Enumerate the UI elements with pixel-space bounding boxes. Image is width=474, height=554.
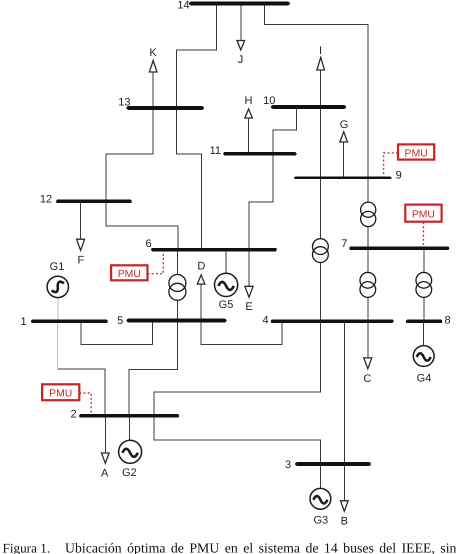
wire load K stem — [152, 72, 154, 108]
wire load I stem — [320, 70, 322, 107]
svg-text:G1: G1 — [50, 261, 65, 273]
bus 9 — [295, 177, 391, 179]
load arrow J head — [237, 41, 245, 50]
wire load C stem — [367, 321, 369, 358]
bus 13 — [128, 106, 202, 110]
svg-text:9: 9 — [396, 170, 402, 182]
svg-text:14: 14 — [177, 0, 189, 12]
svg-text:G4: G4 — [417, 372, 432, 384]
svg-text:K: K — [149, 47, 157, 59]
generator G1 — [47, 276, 68, 297]
wire branch 2-5 — [129, 321, 177, 416]
transformer T9-4 — [313, 239, 329, 263]
wire branch 1-2 gray — [57, 321, 59, 369]
svg-text:A: A — [101, 468, 109, 480]
load arrow H head — [245, 109, 253, 118]
transformer T7-8 — [416, 272, 432, 297]
svg-text:8: 8 — [444, 315, 450, 327]
svg-text:13: 13 — [118, 97, 130, 109]
svg-text:11: 11 — [210, 145, 221, 157]
wire branch 6-5 segment D and branch 5-4 — [201, 284, 282, 345]
svg-text:7: 7 — [341, 238, 347, 250]
svg-text:1: 1 — [21, 316, 27, 328]
transformer T9-7 — [361, 202, 376, 227]
load arrow E head — [245, 286, 253, 297]
bus 6 — [153, 248, 275, 252]
bus 10 — [273, 105, 344, 109]
svg-text:5: 5 — [117, 315, 123, 327]
bus 7 — [351, 247, 448, 251]
svg-text:4: 4 — [262, 314, 268, 326]
wire branch 1-5 — [81, 321, 152, 345]
svg-text:J: J — [238, 54, 244, 66]
load arrow B head — [341, 501, 349, 511]
svg-text:G: G — [340, 119, 349, 131]
bus 1 — [33, 319, 106, 323]
wire branch 9-4 transformer leg — [320, 178, 322, 321]
load arrow G head — [340, 132, 348, 142]
wire load A stem — [104, 416, 106, 453]
load arrow I head — [317, 57, 325, 70]
svg-text:B: B — [341, 516, 348, 528]
PMU box bus 6 — [111, 265, 147, 280]
svg-text:Ubicación óptima de PMU en el: Ubicación óptima de PMU en el sistema de… — [65, 541, 457, 554]
svg-text:3: 3 — [285, 459, 291, 471]
wire branch 13-12 and 12-6 — [106, 72, 178, 250]
generator G2 — [119, 440, 142, 463]
bus 11 — [225, 152, 295, 156]
svg-text:I: I — [319, 45, 322, 57]
load arrow A head — [102, 453, 110, 463]
svg-text:D: D — [197, 261, 205, 273]
svg-text:G2: G2 — [122, 467, 137, 479]
wire branch 14-9 — [264, 4, 368, 178]
wire branch 10-9 — [320, 70, 322, 178]
svg-text:Figura 1.: Figura 1. — [3, 541, 51, 554]
wire branch 7-8 transformer leg — [423, 248, 425, 321]
wire generator G2 lead — [129, 416, 131, 440]
PMU link bus 7 dotted — [422, 222, 424, 246]
PMU link bus 9 dotted — [384, 153, 398, 177]
svg-text:G3: G3 — [313, 515, 328, 527]
svg-text:G5: G5 — [219, 299, 234, 311]
wire branch 3-4 — [343, 321, 345, 464]
svg-text:10: 10 — [263, 95, 275, 107]
PMU box bus 7 — [405, 205, 441, 222]
svg-text:F: F — [78, 255, 85, 267]
wire load B stem — [343, 464, 345, 501]
bus 8 — [408, 320, 441, 324]
svg-text:PMU: PMU — [412, 210, 435, 221]
wire branch 10-11 — [273, 107, 297, 154]
transformer T6-5 — [169, 275, 186, 301]
PMU link bus 6 dotted — [148, 251, 164, 274]
wire branch 2-4 — [154, 321, 320, 416]
svg-text:E: E — [245, 301, 252, 313]
wire branch 11-6 — [249, 154, 273, 250]
load arrow D head — [197, 275, 205, 284]
svg-text:6: 6 — [145, 238, 151, 250]
wire generator G5 lead — [225, 250, 227, 274]
PMU box bus 9 — [398, 144, 434, 159]
bus 3 — [297, 462, 369, 466]
wire load H stem — [248, 118, 250, 154]
generator G3 — [310, 488, 331, 509]
wire generator G1 lead gray — [57, 298, 59, 322]
bus 5 — [129, 319, 225, 323]
wire branch 9-7 transformer leg — [367, 178, 369, 249]
load arrow F head — [77, 239, 85, 250]
generator G5 — [215, 273, 238, 296]
PMU box bus 2 — [42, 384, 79, 400]
svg-text:H: H — [245, 95, 253, 107]
wire load F stem — [80, 203, 82, 239]
wire generator G3 lead — [319, 464, 321, 488]
wire branch 1-2 lower part — [58, 369, 106, 416]
wire generator G4 lead — [422, 321, 424, 345]
transformer T7-4 — [360, 272, 376, 297]
load arrow K head — [149, 61, 157, 73]
wire branch 2-3 — [154, 416, 321, 464]
svg-text:2: 2 — [70, 409, 76, 421]
PMU link bus 2 dotted — [79, 393, 91, 414]
wire branch 7-4 transformer leg — [367, 248, 369, 321]
wire branch 6-5 transformer leg — [176, 250, 178, 321]
wire load E stem — [248, 250, 250, 287]
svg-text:PMU: PMU — [49, 389, 72, 400]
bus 4 — [273, 319, 392, 323]
svg-text:PMU: PMU — [118, 269, 141, 280]
svg-text:C: C — [363, 373, 371, 385]
wire branch 14-13 and 13-6 — [177, 4, 217, 250]
svg-text:12: 12 — [40, 193, 52, 205]
bus 12 — [58, 200, 130, 204]
bus 14 — [191, 2, 288, 6]
wire load G stem — [343, 142, 345, 178]
svg-text:PMU: PMU — [405, 148, 428, 159]
load arrow C head — [364, 358, 372, 369]
wire load J stem — [240, 4, 242, 41]
bus 2 — [81, 414, 177, 418]
generator G4 — [413, 346, 434, 367]
